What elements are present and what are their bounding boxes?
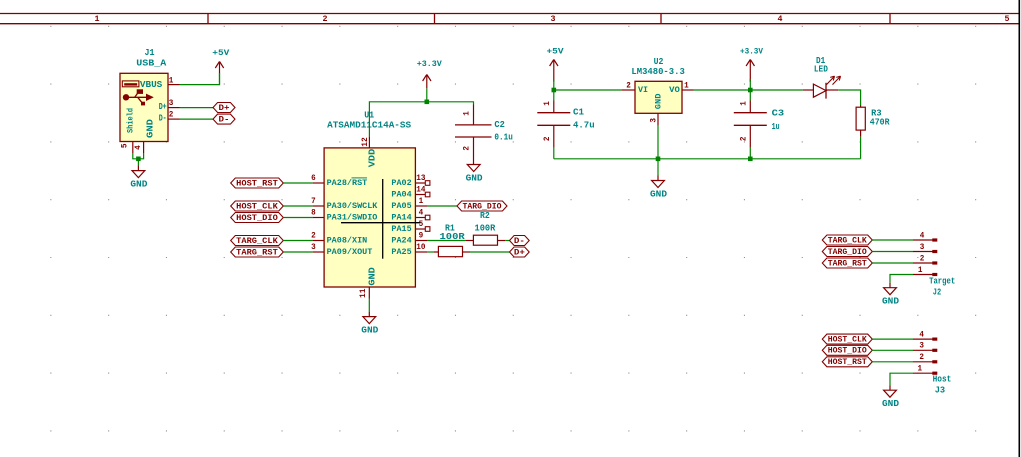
svg-text:PA05: PA05 xyxy=(391,201,411,211)
svg-text:TARG_RST: TARG_RST xyxy=(236,247,278,257)
svg-text:TARG_RST: TARG_RST xyxy=(828,258,867,268)
svg-text:PA08/XIN: PA08/XIN xyxy=(327,236,368,246)
svg-text:J3: J3 xyxy=(935,386,945,396)
svg-text:4: 4 xyxy=(778,14,783,24)
svg-text:1u: 1u xyxy=(772,122,780,132)
svg-text:100R: 100R xyxy=(440,232,466,242)
svg-text:VBUS: VBUS xyxy=(140,80,163,90)
svg-text:0.1u: 0.1u xyxy=(494,133,512,143)
svg-text:GND: GND xyxy=(361,326,379,336)
svg-text:PA24: PA24 xyxy=(391,236,411,246)
svg-text:470R: 470R xyxy=(870,118,890,128)
svg-text:2: 2 xyxy=(740,136,749,141)
svg-text:+5V: +5V xyxy=(212,48,230,58)
svg-text:PA31/SWDIO: PA31/SWDIO xyxy=(327,213,378,223)
svg-text:1: 1 xyxy=(684,82,689,91)
svg-text:HOST_RST: HOST_RST xyxy=(828,357,867,367)
svg-text:2: 2 xyxy=(919,353,924,362)
svg-text:GND: GND xyxy=(650,190,668,200)
svg-text:11: 11 xyxy=(359,288,368,298)
svg-text:J2: J2 xyxy=(933,288,941,298)
svg-text:2: 2 xyxy=(311,231,316,240)
svg-text:4: 4 xyxy=(919,330,924,339)
svg-text:U2: U2 xyxy=(654,57,664,67)
svg-text:3: 3 xyxy=(311,243,316,252)
svg-text:1: 1 xyxy=(169,76,174,85)
svg-text:J1: J1 xyxy=(145,48,156,58)
svg-text:1: 1 xyxy=(463,111,472,116)
svg-text:100R: 100R xyxy=(475,223,496,233)
svg-text:+5V: +5V xyxy=(547,47,565,57)
svg-text:1: 1 xyxy=(543,101,552,106)
svg-text:2: 2 xyxy=(463,146,472,151)
svg-text:VI: VI xyxy=(638,85,648,95)
svg-text:R2: R2 xyxy=(480,211,490,221)
svg-text:2: 2 xyxy=(920,254,925,263)
svg-text:C1: C1 xyxy=(573,108,585,118)
svg-text:2: 2 xyxy=(543,136,552,141)
svg-text:4: 4 xyxy=(134,145,143,150)
svg-text:PA04: PA04 xyxy=(391,190,411,200)
svg-text:PA30/SWCLK: PA30/SWCLK xyxy=(327,201,379,211)
svg-text:5: 5 xyxy=(1005,14,1010,24)
svg-text:VDD: VDD xyxy=(368,148,378,167)
svg-text:PA25: PA25 xyxy=(391,247,411,257)
svg-text:D+: D+ xyxy=(159,102,167,112)
svg-text:+3.3V: +3.3V xyxy=(740,47,764,57)
svg-text:4: 4 xyxy=(419,209,424,218)
svg-text:GND: GND xyxy=(368,266,378,285)
svg-text:C3: C3 xyxy=(772,108,785,118)
svg-text:LM3480-3.3: LM3480-3.3 xyxy=(631,67,684,77)
svg-text:3: 3 xyxy=(551,14,556,24)
svg-text:7: 7 xyxy=(311,197,316,206)
svg-text:D+: D+ xyxy=(219,103,230,113)
svg-text:4: 4 xyxy=(920,231,925,240)
svg-text:13: 13 xyxy=(416,174,425,183)
svg-text:D-: D- xyxy=(159,113,167,123)
svg-text:3: 3 xyxy=(919,342,924,351)
svg-text:HOST_CLK: HOST_CLK xyxy=(828,335,868,345)
svg-text:GND: GND xyxy=(466,173,484,183)
svg-text:PA15: PA15 xyxy=(391,224,411,234)
svg-text:GND: GND xyxy=(882,399,900,409)
svg-text:VO: VO xyxy=(669,85,680,95)
svg-text:Host: Host xyxy=(933,375,952,385)
svg-text:12: 12 xyxy=(361,137,370,147)
svg-text:9: 9 xyxy=(419,232,424,241)
svg-text:5: 5 xyxy=(120,143,129,148)
svg-text:TARG_DIO: TARG_DIO xyxy=(828,247,867,257)
svg-text:PA28/RST: PA28/RST xyxy=(327,178,368,188)
svg-text:2: 2 xyxy=(169,111,174,120)
svg-text:USB_A: USB_A xyxy=(136,59,167,69)
svg-text:D-: D- xyxy=(219,115,230,125)
svg-text:1: 1 xyxy=(918,266,923,275)
svg-text:LED: LED xyxy=(814,64,829,74)
svg-text:1: 1 xyxy=(740,101,749,106)
svg-text:1: 1 xyxy=(419,197,424,206)
svg-text:TARG_DIO: TARG_DIO xyxy=(463,201,502,211)
svg-text:6: 6 xyxy=(311,174,316,183)
svg-text:5: 5 xyxy=(419,220,424,229)
svg-text:PA02: PA02 xyxy=(391,178,411,188)
svg-text:14: 14 xyxy=(416,186,425,195)
svg-text:TARG_CLK: TARG_CLK xyxy=(236,236,278,246)
svg-text:HOST_DIO: HOST_DIO xyxy=(236,213,278,223)
svg-text:3: 3 xyxy=(920,243,925,252)
svg-text:HOST_CLK: HOST_CLK xyxy=(236,201,278,211)
svg-text:3: 3 xyxy=(169,99,174,108)
svg-text:8: 8 xyxy=(311,208,316,217)
svg-text:GND: GND xyxy=(654,94,664,110)
svg-text:2: 2 xyxy=(626,82,631,91)
svg-text:2: 2 xyxy=(323,14,328,24)
svg-text:Target: Target xyxy=(929,276,955,286)
svg-text:1: 1 xyxy=(918,365,923,374)
svg-text:GND: GND xyxy=(882,297,900,307)
svg-text:GND: GND xyxy=(145,118,155,138)
svg-text:1: 1 xyxy=(95,14,100,24)
svg-text:HOST_RST: HOST_RST xyxy=(236,178,278,188)
svg-text:Shield: Shield xyxy=(125,108,135,133)
svg-text:C2: C2 xyxy=(494,120,504,130)
svg-text:PA09/XOUT: PA09/XOUT xyxy=(327,247,373,257)
svg-text:D-: D- xyxy=(514,236,525,246)
svg-text:PA14: PA14 xyxy=(391,213,411,223)
svg-text:GND: GND xyxy=(130,180,148,190)
svg-text:10: 10 xyxy=(416,243,425,252)
svg-text:+3.3V: +3.3V xyxy=(417,59,443,69)
svg-text:HOST_DIO: HOST_DIO xyxy=(828,346,867,356)
svg-text:D+: D+ xyxy=(514,247,525,257)
svg-text:4.7u: 4.7u xyxy=(573,120,595,130)
svg-text:3: 3 xyxy=(650,118,659,123)
svg-text:TARG_CLK: TARG_CLK xyxy=(828,235,868,245)
